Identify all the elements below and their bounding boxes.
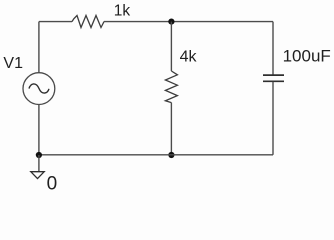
wire middle rail upper bbox=[170, 22, 172, 71]
wire bottom rail bbox=[39, 154, 273, 156]
resistor 1k bbox=[72, 16, 104, 28]
junction node bottom middle bbox=[168, 152, 174, 158]
wire top-left vertical (V1 plus to top rail) bbox=[38, 22, 40, 73]
ground symbol node 0 bbox=[31, 172, 44, 179]
voltage source V1 bbox=[23, 73, 55, 105]
resistor 4k bbox=[165, 71, 177, 103]
svg-text:0: 0 bbox=[47, 173, 58, 192]
label node 0 bbox=[47, 173, 58, 194]
label 100uF bbox=[283, 47, 331, 66]
label 1k bbox=[114, 2, 131, 19]
wire V1 minus to bottom rail bbox=[38, 105, 40, 156]
wire ground stub bbox=[38, 155, 40, 172]
label V1 bbox=[3, 55, 23, 72]
wire top rail left segment bbox=[39, 21, 72, 23]
wire right rail lower (capacitor to bottom rail) bbox=[272, 82, 274, 155]
svg-text:100uF: 100uF bbox=[283, 47, 331, 66]
capacitor 100uF bbox=[263, 75, 284, 81]
svg-text:V1: V1 bbox=[3, 55, 23, 72]
svg-text:4k: 4k bbox=[180, 49, 198, 66]
junction node top middle bbox=[168, 19, 174, 25]
wire top rail middle segment bbox=[104, 21, 273, 23]
wire middle rail lower bbox=[170, 103, 172, 155]
junction node bottom left bbox=[36, 152, 42, 158]
svg-text:1k: 1k bbox=[114, 2, 131, 19]
wire right rail upper (top rail to capacitor) bbox=[272, 22, 274, 75]
label 4k bbox=[180, 49, 198, 66]
